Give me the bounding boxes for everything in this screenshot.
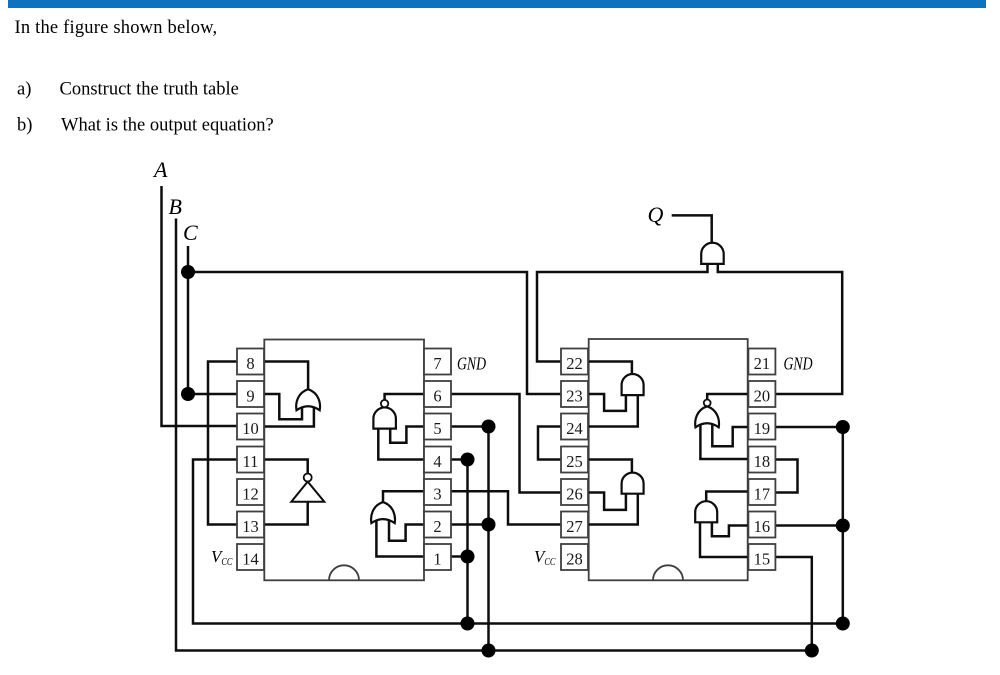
wire pin 11 to lower bus — [193, 460, 843, 624]
wire pin 16 junction — [776, 524, 843, 527]
node bottom bus left — [482, 644, 496, 658]
svg-text:12: 12 — [242, 485, 259, 504]
pin 1 — [424, 544, 451, 570]
and-gate G6 — [622, 473, 644, 494]
svg-text:21: 21 — [754, 354, 771, 373]
svg-text:In the figure shown below,: In the figure shown below, — [15, 18, 218, 38]
wire G3 input to pin 13 — [264, 499, 307, 525]
svg-text:GND: GND — [784, 354, 813, 374]
pin 7 — [424, 349, 451, 375]
svg-text:7: 7 — [433, 354, 441, 373]
wire pin 3 to pin 27 — [451, 491, 561, 524]
nand-gate G2 — [373, 407, 396, 428]
wire B vertical and bottom bus — [176, 219, 812, 651]
wire G1 right input from pin 10 — [264, 404, 314, 427]
IC U2 notch — [653, 565, 683, 580]
wire G8 output to pin 17 — [706, 492, 748, 503]
svg-text:A: A — [152, 157, 168, 182]
pin 12 — [237, 479, 264, 505]
wire G1 left input from pin 9 — [264, 394, 302, 419]
svg-text:13: 13 — [242, 517, 259, 536]
pin 25 — [561, 447, 588, 473]
svg-text:4: 4 — [433, 452, 441, 471]
wire G2 output to pin 6 — [385, 394, 424, 401]
pin 22 — [561, 349, 588, 375]
svg-text:10: 10 — [242, 419, 259, 438]
wire G5 right input from pin 24 — [589, 394, 638, 427]
node C junction top — [181, 265, 195, 279]
svg-text:11: 11 — [243, 452, 259, 471]
and-gate G8 — [695, 501, 717, 522]
pin 5 — [424, 414, 451, 440]
wire pin 2 junction — [451, 523, 489, 526]
node pin 2 — [482, 518, 496, 532]
svg-text:15: 15 — [754, 550, 771, 569]
wire pin 1 junction — [451, 555, 468, 558]
wire pin 15 to bottom bus — [776, 557, 812, 651]
pin 23 — [561, 381, 588, 407]
svg-text:16: 16 — [754, 517, 771, 536]
wire G8 left input to pin 15 — [700, 520, 748, 557]
wire vertical pin5-pin2-bottom bus — [487, 427, 490, 651]
pin 2 — [424, 512, 451, 538]
svg-text:27: 27 — [566, 517, 583, 536]
pin 14 — [237, 544, 264, 570]
svg-text:19: 19 — [754, 419, 771, 438]
svg-text:VCC: VCC — [534, 547, 556, 568]
svg-text:18: 18 — [754, 452, 771, 471]
pin 10 — [237, 414, 264, 440]
wire C to pin 9 — [188, 393, 237, 396]
svg-text:3: 3 — [433, 485, 441, 504]
node lower bus left — [461, 617, 475, 631]
svg-text:26: 26 — [566, 485, 583, 504]
svg-text:6: 6 — [433, 387, 441, 406]
svg-text:GND: GND — [457, 354, 486, 374]
svg-text:Construct the truth table: Construct the truth table — [60, 80, 239, 100]
wire A vertical to pin 10 — [162, 186, 238, 426]
node pin 19 — [836, 420, 850, 434]
svg-text:a): a) — [17, 80, 31, 100]
wire G4 right input to pin 2 — [389, 519, 424, 541]
svg-text:24: 24 — [566, 419, 583, 438]
svg-text:B: B — [169, 194, 182, 219]
wire pin 6 to pin 26 — [451, 394, 561, 493]
wire pin 5 junction — [451, 425, 489, 428]
wire G5 left input from pin 23 — [589, 394, 626, 411]
wire pin 19 junction — [776, 426, 843, 429]
header bar — [8, 0, 986, 8]
node bottom bus right — [805, 644, 819, 658]
pin 13 — [237, 512, 264, 538]
pin 15 — [748, 544, 775, 570]
wire G6 output to pin 25 — [589, 460, 632, 475]
wire pin 18 to pin 17 — [776, 460, 798, 493]
node lower bus right — [836, 617, 850, 631]
wire C top run to pin 23 — [188, 272, 561, 394]
svg-text:25: 25 — [566, 452, 583, 471]
wire pin 20 to Q gate right input — [718, 262, 842, 394]
svg-text:9: 9 — [246, 387, 254, 406]
svg-text:5: 5 — [433, 419, 441, 438]
pin 9 — [237, 381, 264, 407]
wire G5 output to pin 22 — [589, 362, 632, 376]
svg-text:2: 2 — [433, 517, 441, 536]
and-gate G9 (output Q) — [701, 243, 724, 264]
pin 18 — [748, 447, 775, 473]
pin 20 — [748, 381, 775, 407]
wire pin 22 to Q gate left input — [537, 262, 708, 362]
IC U1 body — [264, 340, 424, 581]
inverter G3 — [291, 482, 324, 502]
pin 19 — [748, 414, 775, 440]
pin 8 — [237, 349, 264, 375]
IC U1 notch — [329, 565, 359, 580]
node pin 1 — [461, 550, 475, 564]
wire pin 24 to pin 25 — [538, 427, 561, 460]
svg-text:22: 22 — [566, 354, 583, 373]
wire G2 left input to pin 4 — [378, 426, 424, 460]
pin 3 — [424, 479, 451, 505]
pin 28 — [561, 544, 588, 570]
wire G1 output to pin 8 — [264, 362, 308, 392]
svg-text:20: 20 — [754, 387, 771, 406]
wire G3 output from pin 11 — [264, 460, 307, 475]
wire vertical pin4-pin1-lower bus — [466, 460, 469, 624]
wire G8 right input to pin 16 — [712, 520, 749, 536]
pin 21 — [748, 349, 775, 375]
wire Q output — [672, 215, 712, 243]
svg-text:14: 14 — [242, 550, 259, 569]
pin 6 — [424, 381, 451, 407]
svg-text:23: 23 — [566, 387, 583, 406]
pin 26 — [561, 479, 588, 505]
nor-gate G7 — [695, 406, 719, 427]
svg-text:1: 1 — [433, 550, 441, 569]
svg-text:28: 28 — [566, 550, 583, 569]
IC U2 body — [589, 339, 748, 580]
svg-text:VCC: VCC — [211, 547, 233, 568]
wire G6 left input from pin 26 — [589, 493, 626, 510]
wire G7 right input to pin 19 — [712, 423, 748, 446]
svg-text:What is the output equation?: What is the output equation? — [61, 116, 274, 136]
wire G4 output to pin 3 — [383, 491, 424, 503]
svg-text:Q: Q — [648, 202, 664, 227]
pin 27 — [561, 512, 588, 538]
pin 4 — [424, 447, 451, 473]
or-gate G4 — [371, 502, 395, 523]
wire G7 output to pin 20 — [707, 394, 748, 401]
pin 24 — [561, 414, 588, 440]
pin 17 — [748, 479, 775, 505]
node C junction pin 9 — [181, 387, 195, 401]
and-gate G5 — [622, 374, 644, 395]
svg-text:8: 8 — [246, 354, 254, 373]
wire G4 left input to pin 1 — [376, 519, 424, 557]
pin 16 — [748, 512, 775, 538]
or-gate G1 — [296, 389, 320, 410]
svg-text:17: 17 — [754, 485, 771, 504]
wire pin 8 to pin 13 — [208, 362, 237, 525]
svg-text:C: C — [183, 220, 198, 245]
wire vertical pin19-pin16-lower bus — [842, 427, 845, 624]
wire C vertical — [187, 246, 190, 394]
node pin 16 — [836, 519, 850, 533]
wire G2 right input to pin 5 — [390, 426, 424, 443]
wire pin 4 junction — [451, 458, 468, 461]
wire G6 right input from pin 27 — [589, 493, 638, 525]
wire G7 left input to pin 18 — [700, 423, 748, 459]
pin 11 — [237, 447, 264, 473]
svg-text:b): b) — [17, 116, 32, 136]
node pin 5 — [482, 420, 496, 434]
node pin 4 — [461, 453, 475, 467]
